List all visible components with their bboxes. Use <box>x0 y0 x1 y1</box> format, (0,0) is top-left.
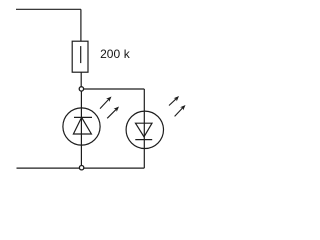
LED D2 emission arrow upper <box>169 98 177 106</box>
LED D1 cathode bar <box>74 116 92 118</box>
LED D1 circle (left) <box>63 108 100 145</box>
LED D2 emission arrow lower <box>175 107 184 117</box>
wire bottom horizontal <box>17 167 145 169</box>
wire resistor bottom to node A <box>80 72 82 89</box>
LED D1 emission arrow upper <box>100 98 110 108</box>
wire top horizontal <box>16 8 81 10</box>
LED D2 cathode bar <box>135 139 152 141</box>
node B junction (open circle) <box>79 166 83 170</box>
LED D2 triangle (points down) <box>136 123 153 137</box>
LED D1 triangle (points up) <box>73 117 91 134</box>
resistor R1 inner line <box>80 46 82 63</box>
wire node A down through LED D1 <box>80 89 82 168</box>
wire top vertical to resistor <box>80 9 82 41</box>
wire right branch vertical down through LED D2 <box>143 89 145 168</box>
LED D1 emission arrow lower <box>107 108 117 118</box>
svg-text:200 k: 200 k <box>100 47 131 61</box>
node A junction (open circle) <box>79 87 83 91</box>
LED D2 circle (right) <box>126 111 163 148</box>
wire node A to right branch <box>81 88 144 90</box>
resistor R1 body <box>72 41 88 72</box>
